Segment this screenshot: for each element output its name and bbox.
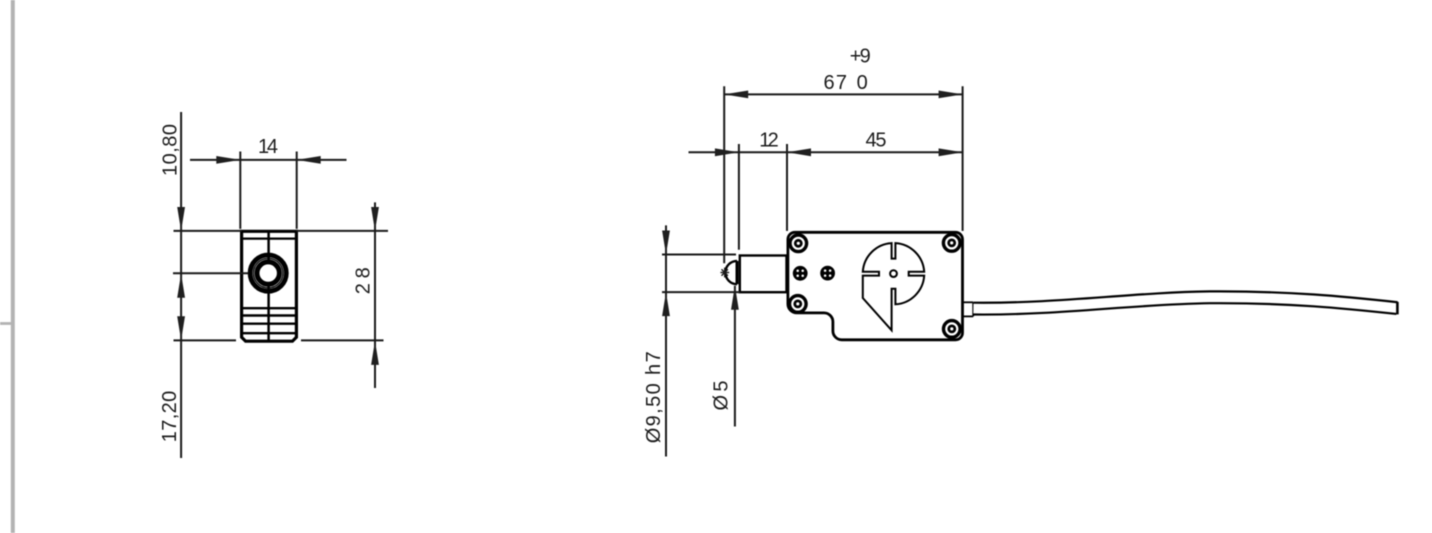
sheet frame vertical xyxy=(11,0,15,533)
dim line dia 5 xyxy=(734,286,736,427)
svg-text:Ø9,50 h7: Ø9,50 h7 xyxy=(643,351,665,443)
arrow 28 bottom xyxy=(371,341,379,365)
dial center dot xyxy=(890,270,897,277)
dim line 67 xyxy=(724,93,962,95)
vertical centerline xyxy=(267,231,270,262)
arrow 67 left xyxy=(724,91,748,99)
arrow dia9.50 bottom xyxy=(662,292,670,316)
dim line right (28) xyxy=(374,202,376,388)
groove line 1 xyxy=(243,307,295,309)
arrow dia9.50 top xyxy=(662,231,670,255)
sheet frame horizontal tick xyxy=(0,322,13,325)
ext line nozzle face xyxy=(738,144,740,250)
arrow 45 right xyxy=(939,148,963,156)
hole outer ring xyxy=(250,255,286,291)
arrow 12 (outside, pointing right) xyxy=(715,148,739,156)
LED dot 2 xyxy=(820,266,835,281)
svg-text:+9: +9 xyxy=(850,46,871,68)
arrow 28 top xyxy=(371,207,379,231)
cable gland xyxy=(963,302,974,316)
ext line nozzle bottom xyxy=(662,291,740,293)
dimension graphics left view xyxy=(173,112,388,458)
svg-text:Ø5: Ø5 xyxy=(711,381,733,411)
screw bottom-right xyxy=(944,321,961,338)
svg-text:28: 28 xyxy=(353,267,375,294)
ext line nozzle top xyxy=(662,254,736,256)
ext line ball tip xyxy=(723,86,725,263)
screw bottom-left xyxy=(790,296,807,313)
arrow 67 right xyxy=(939,91,963,99)
tip point marker xyxy=(720,268,729,278)
part outline xyxy=(242,231,297,341)
arrow 45 left xyxy=(787,148,811,156)
arrow 10,80 top xyxy=(177,207,185,231)
dimension graphics right view xyxy=(662,86,963,456)
groove line 4 xyxy=(243,332,295,334)
svg-text:0: 0 xyxy=(857,72,868,94)
screw top-left xyxy=(790,235,807,252)
dim line left (10,80 / 17,20) xyxy=(180,112,182,458)
cable xyxy=(973,297,1397,308)
hole horizontal centerline xyxy=(173,272,248,274)
svg-text:17,20: 17,20 xyxy=(159,391,181,443)
dim line 12/45 xyxy=(689,151,963,153)
nozzle dome arc xyxy=(725,261,737,284)
svg-text:45: 45 xyxy=(866,130,887,152)
svg-text:14: 14 xyxy=(258,136,278,158)
extension line part top xyxy=(174,230,242,232)
groove line 2 xyxy=(243,314,295,316)
hole thin circle xyxy=(253,258,283,288)
nozzle body xyxy=(740,256,787,293)
svg-text:10,80: 10,80 xyxy=(160,124,182,176)
nozzle dome flat face xyxy=(736,261,739,284)
extension line part bottom xyxy=(174,339,237,341)
arrow 14 right xyxy=(297,156,321,164)
arrow 10,80 bottom / 17,20 top xyxy=(177,274,185,298)
extension lines 14 xyxy=(239,152,241,229)
arrow 14 left xyxy=(216,156,240,164)
ext line body right xyxy=(962,86,964,231)
svg-text:12: 12 xyxy=(759,130,779,152)
ext line body left xyxy=(786,144,788,231)
LED dot 1 xyxy=(793,266,808,281)
body outline xyxy=(788,232,963,339)
dim line dia 9.50 xyxy=(665,225,667,456)
arrow dia5 xyxy=(731,286,739,310)
rotary dial outline xyxy=(863,243,924,330)
dim line 14 xyxy=(190,159,347,161)
hole inner ring xyxy=(257,262,279,284)
groove line 3 xyxy=(243,323,295,325)
lip line xyxy=(242,238,297,240)
arrow 17,20 bottom xyxy=(177,316,185,340)
svg-text:67: 67 xyxy=(823,72,847,94)
cable end cap xyxy=(1396,302,1399,315)
screw top-right xyxy=(943,235,960,252)
